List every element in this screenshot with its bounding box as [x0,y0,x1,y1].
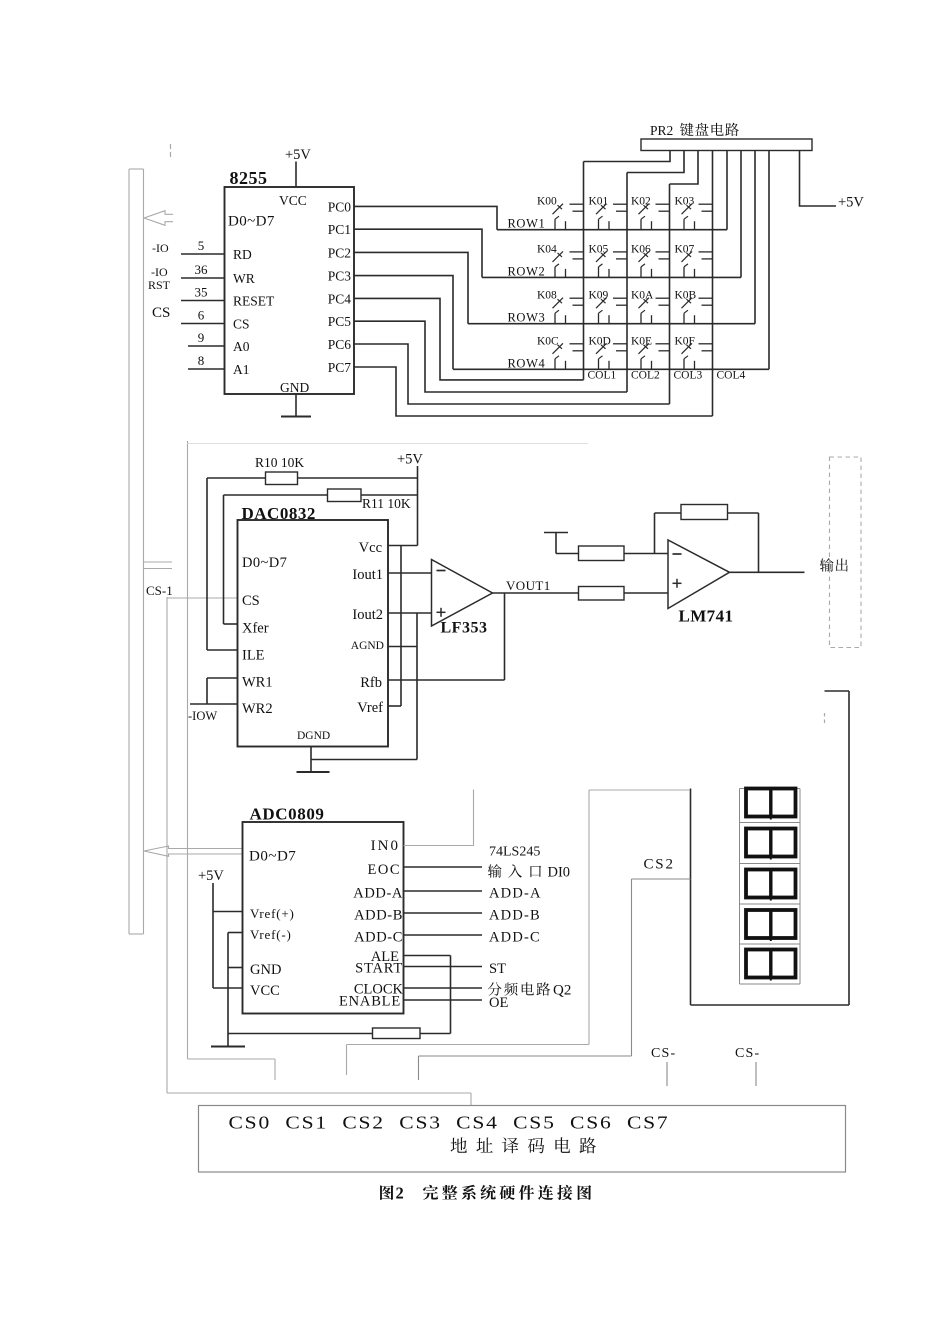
svg-text:Xfer: Xfer [242,621,269,637]
wire PC3 to ROW4 [354,276,453,370]
svg-text:K0C: K0C [537,335,559,347]
svg-text:PR2: PR2 [650,123,673,138]
svg-text:CS: CS [152,305,170,321]
svg-text:ROW1: ROW1 [508,217,546,231]
wire PR2 to COL1 [584,151,671,162]
pin 9 A0 [188,330,250,354]
bus stub to DAC (double line) [144,562,173,569]
node VOUT1 wire LF353 output [493,578,579,593]
svg-text:K02: K02 [631,196,651,208]
pin 8 A1 [188,353,250,377]
svg-text:ROW3: ROW3 [508,311,546,325]
svg-text:35: 35 [195,285,208,300]
label PR2 键盘电路 [650,123,739,138]
svg-text:K04: K04 [537,243,557,255]
svg-text:Vref: Vref [357,700,383,716]
wire PC7 to COL4 [354,367,713,416]
net COL2 line [627,173,660,393]
wire PR2 to COL3 [670,151,699,185]
svg-text:GND: GND [250,962,281,978]
svg-text:+5V: +5V [397,452,423,468]
bus arrow into ADC D0~D7 [144,846,243,856]
wire PR2 to COL2 [627,151,684,173]
svg-text:ROW2: ROW2 [508,264,546,278]
svg-text:CS2: CS2 [644,857,675,873]
svg-text:VOUT1: VOUT1 [506,578,551,593]
svg-text:ADD-C: ADD-C [489,930,541,946]
svg-text:ADD-B: ADD-B [354,908,403,924]
wire PC1 to ROW2 [354,229,482,277]
ground (DAC DGND) [297,747,330,773]
svg-text:CS-: CS- [735,1046,760,1061]
seven-segment digit 4 [746,910,796,941]
address decoder box [199,1106,846,1173]
svg-text:PC0: PC0 [328,199,352,214]
wire Vcc to Vref [388,546,401,707]
wire PC6 to COL3 [354,344,670,404]
reference tee (LM741 input) [544,533,568,554]
wire display to ADC region (gray) [347,790,691,1075]
svg-text:5: 5 [198,238,205,253]
wire CS-1 from bus to decode (gray) [167,597,471,1106]
svg-text:COL2: COL2 [631,370,660,382]
key switch K04 [537,243,584,277]
wire PR2 to ROW2 riser [740,151,742,278]
svg-text:74LS245: 74LS245 [489,845,540,860]
svg-text:RST: RST [148,278,171,292]
svg-text:+5V: +5V [198,868,224,884]
resistor LM741 non-inverting input [579,587,669,601]
feedback tap VOUT1 to Rfb [388,593,505,680]
svg-text:-IO: -IO [152,241,169,255]
svg-text:LM741: LM741 [679,607,734,626]
svg-text:IN0: IN0 [371,838,400,854]
pin 35 RESET [181,285,275,309]
svg-text:DAC0832: DAC0832 [242,504,316,523]
resistor ADC start [228,1028,451,1039]
keyboard connector PR2 bar [641,139,812,151]
key switch K0D [589,335,628,369]
dashed tick top-left [170,144,172,160]
label 输入口 DI0 [488,864,570,880]
wire PC0 to ROW1 [354,206,497,229]
pin 36 WR [181,262,255,286]
wire ADD-B [404,912,483,914]
ground (ADC) [211,1046,245,1048]
svg-text:-IOW: -IOW [188,709,217,723]
dashed boundary box (output) [830,457,862,648]
key switch K02 [631,196,670,230]
wire PR2 to ROW3 riser [754,151,756,324]
key switch K01 [589,196,628,230]
svg-text:PC7: PC7 [328,360,352,375]
svg-text:Vref(-): Vref(-) [250,927,292,942]
key switch K00 [537,196,584,230]
wire ENABLE to OE [404,999,483,1001]
wire R10 to ILE [207,478,238,650]
wire Vref(-) GND to ground [228,933,243,1047]
svg-text:ILE: ILE [242,648,265,664]
key switch K07 [675,243,713,277]
svg-text:6: 6 [198,308,205,323]
svg-text:K01: K01 [589,196,609,208]
op-amp U4 LM741 [668,540,733,626]
key switch K0E [631,335,670,369]
data bus (left vertical double line) [129,169,144,934]
ground (8255) [281,394,311,417]
label -IO RST (WR) [148,265,171,292]
svg-text:PC2: PC2 [328,245,351,260]
net COL1 line [584,162,617,382]
svg-text:ADD-A: ADD-A [489,886,542,902]
svg-text:AGND: AGND [351,640,384,652]
svg-text:36: 36 [195,262,209,277]
svg-text:GND: GND [280,380,309,395]
label CS- (left) [651,1046,676,1086]
power +5V (keyboard) [800,151,865,211]
svg-text:R10 10K: R10 10K [255,455,304,470]
svg-text:OE: OE [489,995,508,1011]
key switch K06 [631,243,670,277]
power +5V (DAC) [397,452,423,546]
wire WR1 WR2 to -IOW [190,678,238,704]
key switch K0A [631,290,670,324]
key switch K0F [675,335,713,369]
key switch K0B [675,290,713,324]
digit cell frame [740,789,801,985]
key switch K09 [589,290,628,324]
wire +5V to VCC [213,987,243,989]
wire PC2 to ROW3 [354,252,468,323]
wire IN0 (gray) [404,790,474,846]
svg-text:K0D: K0D [589,335,611,347]
svg-text:WR: WR [233,271,255,286]
net ROW2 line [482,264,741,278]
net COL3 line [670,184,703,404]
net COL4 line [713,151,746,417]
svg-text:CS-: CS- [651,1046,676,1061]
svg-text:Q2: Q2 [553,983,571,999]
wire PC4 to COL1 [354,298,584,380]
key switch K08 [537,290,584,324]
wire START to ST [404,966,483,968]
svg-text:PC3: PC3 [328,269,352,284]
wire Iout2/AGND to ground [311,613,417,760]
svg-text:COL1: COL1 [588,370,617,382]
key switch K0C [537,335,584,369]
svg-text:9: 9 [198,330,205,345]
svg-text:ADD-A: ADD-A [353,886,403,902]
key switch K05 [589,243,628,277]
label 输出 [820,558,848,572]
wire +5V to Vref(+) [213,911,243,913]
wire Iout1 to LF353 inverting input [388,572,432,574]
svg-text:R11 10K: R11 10K [362,496,411,511]
svg-text:K0A: K0A [631,290,654,302]
seven-segment digit 2 [746,829,796,860]
power +5V (8255) [285,147,311,187]
svg-text:A1: A1 [233,362,250,377]
svg-text:WR1: WR1 [242,675,273,691]
svg-text:RESET: RESET [233,294,275,309]
pin 5 RD [181,238,252,262]
svg-text:RD: RD [233,247,252,262]
svg-text:COL3: COL3 [674,370,703,382]
net ROW3 line [468,311,755,325]
svg-text:Rfb: Rfb [360,675,382,691]
svg-text:A0: A0 [233,339,250,354]
svg-text:EOC: EOC [368,862,402,878]
wire LM741 output [730,571,805,573]
svg-text:COL4: COL4 [717,370,746,382]
svg-text:-IO: -IO [151,265,168,279]
section outline gray (DAC, left edge) [188,441,276,1080]
svg-text:K00: K00 [537,196,557,208]
svg-text:WR2: WR2 [242,701,273,717]
svg-text:ENABLE: ENABLE [339,994,401,1010]
label 地址译码电路 [451,1137,596,1153]
svg-text:LF353: LF353 [441,620,488,637]
resistor LM741 inverting input [556,546,668,561]
power +5V (ADC) [198,868,224,988]
svg-text:CS0 CS1 CS2 CS3 CS4 CS5: CS0 CS1 CS2 CS3 CS4 CS5 CS6 CS7 [229,1113,670,1133]
wire CS2 to display [419,879,691,1080]
svg-text:PC6: PC6 [328,337,352,352]
svg-text:8: 8 [198,353,205,368]
svg-text:Iout2: Iout2 [352,607,383,623]
resistor R10 [207,455,418,485]
svg-text:PC5: PC5 [328,314,352,329]
wire Iout2 to LF353 non-inverting input [388,612,432,614]
wire CLOCK [404,987,483,989]
svg-text:+5V: +5V [838,195,864,211]
svg-text:Iout1: Iout1 [352,567,383,583]
svg-text:2: 2 [396,1184,404,1203]
key switch K03 [675,196,713,230]
svg-text:K06: K06 [631,243,651,255]
resistor LM741 feedback [655,505,759,573]
svg-text:K07: K07 [675,243,695,255]
wire ADD-C [404,934,483,936]
svg-text:DI0: DI0 [548,865,571,881]
wire Vcc to +5V [388,545,418,547]
svg-text:START: START [355,961,403,977]
net ROW4 line [453,356,769,370]
display module outer box [691,691,850,1005]
svg-text:ADD-C: ADD-C [354,930,403,946]
dashed tick (display box) [824,713,826,724]
svg-text:K09: K09 [589,290,609,302]
label CS- (right) [735,1046,760,1086]
caption 图2 完整系统硬件连接图 [380,1184,591,1203]
svg-text:K0E: K0E [631,335,652,347]
svg-text:VCC: VCC [250,983,280,999]
svg-text:ADD-B: ADD-B [489,908,541,924]
resistor R11 [224,489,418,511]
IC U2 DAC0832 box [238,520,389,747]
svg-text:K05: K05 [589,243,609,255]
wire ALE to resistor [404,956,451,1034]
net ROW1 line [497,217,727,231]
svg-text:PC4: PC4 [328,291,352,306]
label 分频电路 Q2 [488,982,571,998]
seven-segment digit 3 [746,870,796,901]
svg-text:Vref(+): Vref(+) [250,906,295,921]
svg-text:CS: CS [242,593,260,609]
svg-text:VCC: VCC [279,193,307,208]
svg-text:K0B: K0B [675,290,697,302]
svg-text:Vcc: Vcc [359,540,382,556]
seven-segment digit 5 [746,950,796,981]
svg-text:ROW4: ROW4 [508,356,546,370]
IC U5 ADC0809 box [243,822,404,1014]
bus arrow into 8255 D0~D7 [144,211,173,226]
wire PC5 to COL2 [354,321,627,392]
svg-text:D0~D7: D0~D7 [228,214,275,230]
section outline gray (DAC, top edge) [188,443,589,445]
svg-text:K08: K08 [537,290,557,302]
wire PR2 to ROW4 riser [768,151,770,370]
svg-text:CS-1: CS-1 [146,583,173,598]
svg-text:DGND: DGND [297,730,330,742]
svg-text:PC1: PC1 [328,222,351,237]
svg-text:D0~D7: D0~D7 [249,849,296,865]
svg-text:K0F: K0F [675,335,695,347]
seven-segment digit 1 [746,789,796,820]
svg-text:ADC0809: ADC0809 [250,805,325,824]
wire R11 to Xfer [224,495,238,624]
op-amp U3 LF353 [432,560,493,637]
svg-text:K03: K03 [675,196,695,208]
svg-text:ST: ST [489,961,506,977]
svg-text:+5V: +5V [285,147,311,163]
svg-text:D0~D7: D0~D7 [242,555,287,571]
wire EOC [404,866,483,868]
pin 6 CS [181,308,250,332]
svg-text:8255: 8255 [230,168,268,188]
wire ADD-A [404,890,483,892]
svg-text:CS: CS [233,317,250,332]
IC U1 8255 box [225,187,355,394]
wire PR2 to ROW1 riser [726,151,728,230]
